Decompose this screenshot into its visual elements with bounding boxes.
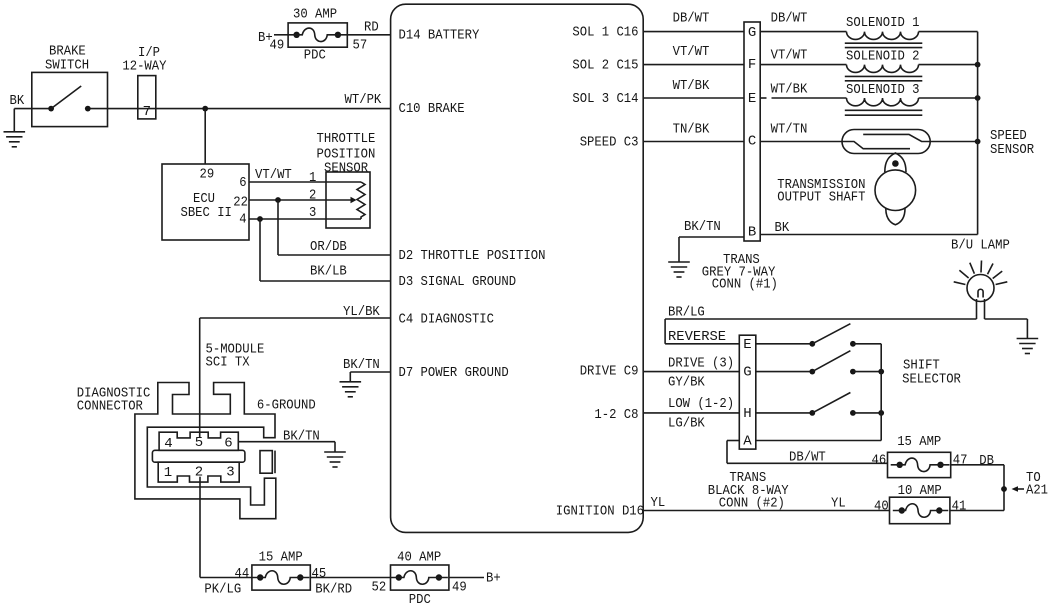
svg-text:DRIVE (3): DRIVE (3) bbox=[668, 355, 734, 371]
svg-text:1: 1 bbox=[164, 465, 172, 481]
svg-text:52: 52 bbox=[372, 580, 387, 596]
svg-text:SOL 2 C15: SOL 2 C15 bbox=[572, 58, 638, 74]
svg-text:BK/TN: BK/TN bbox=[684, 219, 721, 235]
svg-text:SPEED C3: SPEED C3 bbox=[580, 135, 639, 151]
svg-text:D14 BATTERY: D14 BATTERY bbox=[399, 28, 480, 44]
svg-text:47: 47 bbox=[953, 452, 968, 468]
svg-text:WT/BK: WT/BK bbox=[771, 82, 808, 98]
svg-text:H: H bbox=[743, 406, 751, 422]
svg-text:57: 57 bbox=[353, 38, 368, 54]
svg-text:D2 THROTTLE POSITION: D2 THROTTLE POSITION bbox=[399, 248, 546, 264]
svg-text:4: 4 bbox=[239, 212, 246, 228]
svg-text:DRIVE C9: DRIVE C9 bbox=[580, 364, 639, 380]
svg-text:E: E bbox=[743, 337, 751, 353]
svg-text:VT/WT: VT/WT bbox=[255, 167, 292, 183]
svg-text:BK/LB: BK/LB bbox=[310, 264, 347, 280]
svg-text:DB: DB bbox=[979, 453, 994, 469]
svg-text:CONNECTOR: CONNECTOR bbox=[77, 399, 144, 415]
svg-text:SOLENOID 3: SOLENOID 3 bbox=[846, 82, 920, 98]
svg-text:E: E bbox=[748, 91, 756, 107]
svg-text:LOW (1-2): LOW (1-2) bbox=[668, 396, 734, 412]
svg-text:G: G bbox=[748, 25, 756, 41]
svg-text:SENSOR: SENSOR bbox=[990, 142, 1035, 158]
svg-text:A: A bbox=[743, 434, 752, 450]
svg-text:45: 45 bbox=[312, 566, 327, 582]
svg-text:3: 3 bbox=[309, 205, 316, 221]
svg-text:2: 2 bbox=[195, 465, 203, 481]
svg-text:DB/WT: DB/WT bbox=[789, 450, 826, 466]
svg-text:G: G bbox=[743, 365, 751, 381]
svg-text:GY/BK: GY/BK bbox=[668, 374, 705, 390]
svg-text:BK/TN: BK/TN bbox=[343, 357, 380, 373]
svg-text:SBEC II: SBEC II bbox=[181, 205, 232, 221]
svg-text:D7 POWER GROUND: D7 POWER GROUND bbox=[399, 365, 509, 381]
svg-text:40: 40 bbox=[874, 499, 889, 515]
svg-text:OUTPUT SHAFT: OUTPUT SHAFT bbox=[777, 190, 865, 206]
svg-text:SOLENOID 1: SOLENOID 1 bbox=[846, 15, 920, 31]
svg-text:VT/WT: VT/WT bbox=[673, 44, 710, 60]
svg-text:C10 BRAKE: C10 BRAKE bbox=[399, 101, 465, 117]
svg-text:49: 49 bbox=[270, 38, 285, 54]
svg-text:PDC: PDC bbox=[409, 592, 431, 608]
svg-text:TN/BK: TN/BK bbox=[673, 122, 710, 138]
svg-text:BK/RD: BK/RD bbox=[315, 582, 352, 598]
svg-text:YL: YL bbox=[651, 495, 666, 511]
svg-text:4: 4 bbox=[164, 436, 172, 452]
svg-text:IGNITION D16: IGNITION D16 bbox=[556, 504, 644, 520]
svg-text:15 AMP: 15 AMP bbox=[897, 434, 941, 450]
svg-text:1-2 C8: 1-2 C8 bbox=[594, 407, 638, 423]
svg-text:RD: RD bbox=[364, 20, 379, 36]
svg-text:CONN (#2): CONN (#2) bbox=[719, 496, 785, 512]
svg-text:B/U LAMP: B/U LAMP bbox=[951, 238, 1010, 254]
svg-text:6: 6 bbox=[224, 436, 232, 452]
svg-text:41: 41 bbox=[952, 499, 967, 515]
svg-text:DB/WT: DB/WT bbox=[673, 10, 710, 26]
svg-text:PDC: PDC bbox=[304, 48, 326, 64]
svg-text:SCI TX: SCI TX bbox=[206, 355, 251, 371]
svg-text:6-GROUND: 6-GROUND bbox=[257, 398, 316, 414]
svg-text:PK/LG: PK/LG bbox=[204, 582, 241, 598]
svg-text:THROTTLE: THROTTLE bbox=[317, 131, 376, 147]
svg-text:F: F bbox=[748, 57, 756, 73]
svg-text:C: C bbox=[748, 134, 756, 150]
svg-text:2: 2 bbox=[309, 188, 316, 204]
svg-text:WT/TN: WT/TN bbox=[771, 122, 808, 138]
svg-text:6: 6 bbox=[239, 175, 246, 191]
svg-text:SENSOR: SENSOR bbox=[324, 161, 369, 177]
svg-text:SELECTOR: SELECTOR bbox=[902, 371, 961, 387]
svg-text:12-WAY: 12-WAY bbox=[122, 59, 167, 75]
svg-text:B+: B+ bbox=[486, 571, 501, 587]
svg-text:40 AMP: 40 AMP bbox=[397, 550, 441, 566]
svg-text:OR/DB: OR/DB bbox=[310, 239, 347, 255]
svg-text:1: 1 bbox=[309, 170, 316, 186]
svg-text:44: 44 bbox=[235, 566, 250, 582]
svg-text:46: 46 bbox=[872, 452, 887, 468]
svg-text:5: 5 bbox=[195, 435, 203, 451]
svg-text:49: 49 bbox=[452, 580, 467, 596]
svg-text:30 AMP: 30 AMP bbox=[293, 7, 337, 23]
svg-text:SOL 3 C14: SOL 3 C14 bbox=[572, 91, 638, 107]
svg-text:15 AMP: 15 AMP bbox=[259, 550, 303, 566]
svg-text:WT/PK: WT/PK bbox=[345, 92, 382, 108]
svg-text:22: 22 bbox=[233, 195, 248, 211]
svg-text:BK: BK bbox=[775, 220, 790, 236]
svg-text:SOLENOID 2: SOLENOID 2 bbox=[846, 48, 920, 64]
svg-text:BR/LG: BR/LG bbox=[668, 304, 705, 320]
svg-text:C4 DIAGNOSTIC: C4 DIAGNOSTIC bbox=[399, 312, 495, 328]
svg-text:DB/WT: DB/WT bbox=[771, 10, 808, 26]
svg-text:SOL 1 C16: SOL 1 C16 bbox=[572, 25, 638, 41]
svg-text:BK: BK bbox=[10, 93, 25, 109]
svg-text:CONN (#1): CONN (#1) bbox=[712, 276, 778, 292]
svg-text:WT/BK: WT/BK bbox=[673, 78, 710, 94]
svg-text:B: B bbox=[748, 225, 756, 241]
svg-text:VT/WT: VT/WT bbox=[771, 48, 808, 64]
svg-text:29: 29 bbox=[200, 167, 215, 183]
svg-text:SWITCH: SWITCH bbox=[45, 57, 89, 73]
svg-text:7: 7 bbox=[143, 104, 151, 120]
svg-text:LG/BK: LG/BK bbox=[668, 415, 705, 431]
svg-text:REVERSE: REVERSE bbox=[668, 329, 726, 345]
svg-text:A21: A21 bbox=[1026, 483, 1048, 499]
svg-text:D3 SIGNAL GROUND: D3 SIGNAL GROUND bbox=[399, 274, 517, 290]
svg-text:YL: YL bbox=[831, 496, 846, 512]
svg-text:3: 3 bbox=[226, 465, 234, 481]
